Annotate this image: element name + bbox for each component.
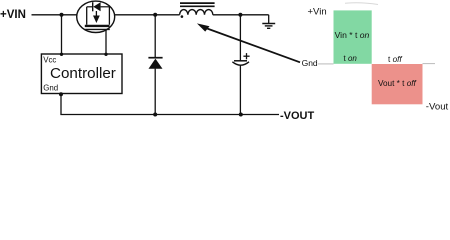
annotation arrow: waveform points to switch node <box>197 23 300 62</box>
wire: controller Gnd down to -VOUT rail <box>60 94 62 115</box>
node: Vcc junction at controller top <box>60 53 63 56</box>
svg-text:Gnd: Gnd <box>302 58 318 68</box>
wire: C1 minus plate to -VOUT rail <box>239 65 241 114</box>
node: diode tap on switch node <box>153 13 157 17</box>
svg-text:+Vin: +Vin <box>308 7 327 18</box>
baseline: Gnd tick <box>318 63 334 65</box>
wire: switch node horizontal (Q1 drain to inductor) <box>115 14 180 16</box>
node: gate junction at controller top <box>104 53 107 56</box>
inductor L1 <box>180 3 215 18</box>
node: D1 rail junction <box>153 113 157 117</box>
wire: +VIN to MOSFET source <box>32 14 78 16</box>
wire: Vcc feed to controller <box>61 15 63 55</box>
svg-text:Controller: Controller <box>50 65 116 82</box>
svg-text:t on: t on <box>344 54 358 63</box>
wire: output node to C1 plus plate <box>239 15 241 61</box>
wire: inductor to ground corner <box>213 14 269 16</box>
wire: Q1 gate to controller <box>105 29 107 54</box>
waveform: Vout*t_off pulse (red) <box>372 64 423 104</box>
svg-text:Vout * t off: Vout * t off <box>378 79 417 88</box>
svg-text:Vcc: Vcc <box>43 56 56 65</box>
op-amp/controller U1 box <box>41 54 122 94</box>
waveform: Vin*t_on pulse (green) <box>334 10 372 63</box>
node: Gnd pin junction <box>59 92 63 96</box>
ground <box>262 15 275 28</box>
wire: -VOUT rail <box>60 114 279 116</box>
node: output capacitor tap <box>238 13 242 17</box>
wire: D1 anode to -VOUT rail <box>154 69 156 115</box>
svg-text:Gnd: Gnd <box>43 83 58 92</box>
diode D1 <box>148 58 162 69</box>
node: Vcc tap on +VIN rail <box>60 13 64 17</box>
svg-text:Vin * t on: Vin * t on <box>335 30 370 40</box>
svg-text:+VIN: +VIN <box>0 9 26 21</box>
svg-text:-VOUT: -VOUT <box>280 110 315 122</box>
node: C1 rail junction <box>239 113 243 117</box>
baseline tick after t off <box>423 63 436 65</box>
wire: switch node to D1 cathode <box>154 15 156 58</box>
capacitor C1 (polarized) <box>232 53 249 65</box>
svg-text:t off: t off <box>388 55 402 64</box>
svg-text:-Vout: -Vout <box>426 102 449 113</box>
transistor Q1 P-channel MOSFET <box>77 1 115 32</box>
